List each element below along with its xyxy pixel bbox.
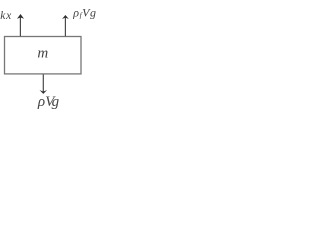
wire: bottom down-arrow shaft (weight) xyxy=(42,74,44,93)
arrowhead right up-arrow xyxy=(62,15,69,19)
svg-text:m: m xyxy=(37,46,48,62)
mass block m xyxy=(5,37,82,74)
svg-text:ρVg: ρVg xyxy=(37,94,60,110)
wire: right up-arrow shaft (buoyant force) xyxy=(64,17,66,37)
arrowhead bottom down-arrow xyxy=(40,90,48,94)
wire: left up-arrow shaft (spring force kx) xyxy=(19,16,21,37)
arrowhead left up-arrow xyxy=(17,14,24,19)
svg-text:ρfVg: ρfVg xyxy=(72,5,96,19)
svg-text:kx: kx xyxy=(0,10,12,22)
